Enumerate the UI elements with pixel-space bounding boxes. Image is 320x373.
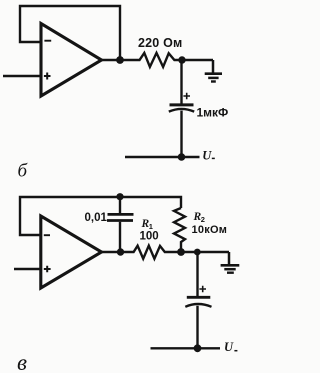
svg-text:0,01: 0,01: [85, 212, 108, 224]
svg-text:220 Ом: 220 Ом: [138, 36, 183, 50]
svg-text:100: 100: [140, 231, 159, 243]
svg-text:U: U: [224, 340, 234, 354]
svg-text:1: 1: [149, 222, 153, 231]
svg-text:10кОм: 10кОм: [192, 224, 228, 236]
svg-text:1мкФ: 1мкФ: [197, 106, 229, 120]
svg-text:б: б: [18, 161, 29, 182]
svg-text:U: U: [202, 148, 212, 162]
svg-text:в: в: [17, 350, 27, 373]
svg-text:2: 2: [201, 215, 205, 224]
